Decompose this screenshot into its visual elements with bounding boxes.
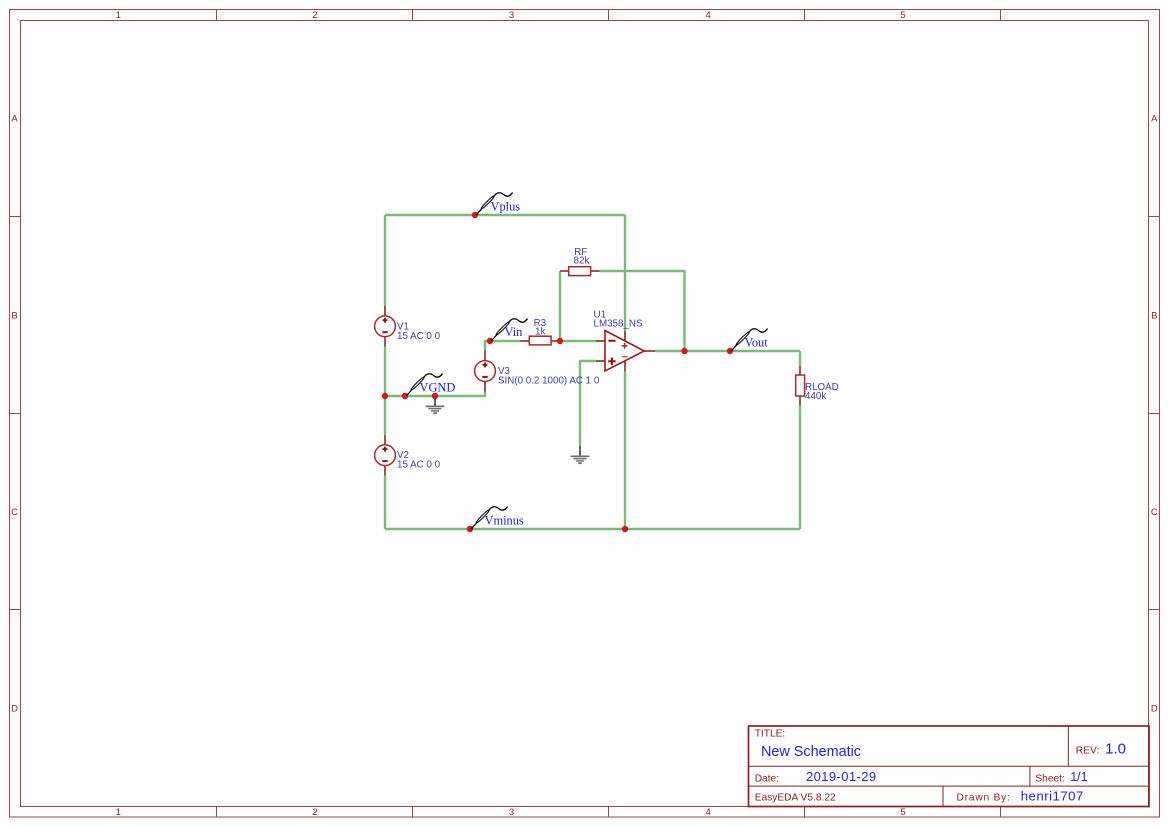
svg-text:15 AC 0 0: 15 AC 0 0 <box>397 460 441 471</box>
wire V1 top drop <box>384 215 386 306</box>
svg-text:VGND: VGND <box>420 381 456 395</box>
svg-text:1: 1 <box>116 10 121 21</box>
svg-text:Vout: Vout <box>745 336 769 350</box>
net flag Vminus <box>471 507 524 529</box>
svg-text:4: 4 <box>705 10 710 21</box>
svg-text:B: B <box>11 310 17 321</box>
junction Vplus <box>472 212 478 218</box>
junction Vminus <box>467 526 473 532</box>
net flag Vin <box>491 319 527 341</box>
title block <box>749 726 1150 807</box>
svg-text:2019-01-29: 2019-01-29 <box>806 769 877 784</box>
V2 voltage source <box>375 435 396 476</box>
wire V2 bottom <box>384 476 386 530</box>
junction Vout <box>727 348 733 354</box>
junction VGND flag <box>402 393 408 399</box>
junction op-amp V- rail <box>622 526 628 532</box>
label RF <box>574 247 590 266</box>
wire RLOAD top <box>799 351 801 366</box>
wire Vplus rail <box>385 214 625 216</box>
V3 voltage source <box>475 351 496 392</box>
svg-text:B: B <box>1151 310 1157 321</box>
svg-text:82k: 82k <box>574 255 590 266</box>
wire op-amp V+ riser <box>624 215 626 331</box>
wire op-amp +input <box>580 361 596 446</box>
svg-text:TITLE:: TITLE: <box>755 729 786 740</box>
title block text <box>755 729 1126 804</box>
svg-text:Drawn By:: Drawn By: <box>957 792 1011 803</box>
svg-text:Date:: Date: <box>755 773 779 784</box>
wire R3 out to op-amp <box>560 340 596 342</box>
svg-text:D: D <box>11 704 18 715</box>
junction ground attach <box>432 393 438 399</box>
svg-text:REV:: REV: <box>1076 745 1099 756</box>
wire V1 bottom <box>384 347 386 397</box>
svg-text:1/1: 1/1 <box>1070 770 1087 784</box>
svg-text:1k: 1k <box>535 327 545 338</box>
wire V2 top <box>384 396 386 435</box>
ground (op-amp +input) <box>571 446 590 464</box>
net flag Vout <box>731 329 768 351</box>
label V3 <box>498 366 600 387</box>
label U1 <box>594 310 643 330</box>
svg-text:440k: 440k <box>805 391 826 402</box>
wire op-amp V- drop <box>624 372 626 530</box>
svg-text:Vplus: Vplus <box>491 200 521 214</box>
junction R3/RF node <box>557 338 563 344</box>
svg-text:Sheet:: Sheet: <box>1035 773 1064 784</box>
svg-text:C: C <box>11 507 18 518</box>
svg-text:2: 2 <box>312 10 317 21</box>
svg-text:A: A <box>1151 114 1158 125</box>
svg-text:1.0: 1.0 <box>1105 740 1126 757</box>
svg-text:Vin: Vin <box>505 325 523 339</box>
resistor R3 <box>520 336 560 345</box>
svg-text:A: A <box>11 114 18 125</box>
svg-text:C: C <box>1151 507 1158 518</box>
net flag Vplus <box>476 193 520 215</box>
svg-text:5: 5 <box>900 10 905 21</box>
wire feedback riser <box>559 271 561 341</box>
resistor RLOAD <box>796 366 805 406</box>
wire VGND rail <box>385 392 485 397</box>
wire RF right <box>600 271 685 351</box>
svg-text:4: 4 <box>705 807 710 818</box>
svg-text:Vminus: Vminus <box>485 514 524 528</box>
op-amp U1 <box>596 331 655 372</box>
svg-text:New Schematic: New Schematic <box>761 744 861 760</box>
svg-text:2: 2 <box>312 807 317 818</box>
label V2 <box>397 450 441 471</box>
svg-text:EasyEDA V5.8.22: EasyEDA V5.8.22 <box>755 792 836 803</box>
label R3 <box>534 318 547 338</box>
svg-text:henri1707: henri1707 <box>1021 788 1084 803</box>
svg-text:3: 3 <box>509 807 514 818</box>
svg-text:5: 5 <box>900 807 905 818</box>
label RLOAD <box>805 382 839 402</box>
junction output/feedback <box>681 348 687 354</box>
ground (VGND rail) <box>426 396 445 414</box>
svg-text:SIN(0 0.2 1000) AC 1 0: SIN(0 0.2 1000) AC 1 0 <box>498 376 600 387</box>
svg-text:1: 1 <box>116 807 121 818</box>
svg-text:15 AC 0 0: 15 AC 0 0 <box>397 331 441 342</box>
label V1 <box>397 321 441 342</box>
svg-text:D: D <box>1151 704 1158 715</box>
wire V3 top <box>485 341 520 351</box>
junction V1/VGND corner <box>382 393 388 399</box>
net flag VGND <box>406 374 455 396</box>
svg-text:3: 3 <box>509 10 514 21</box>
svg-text:LM358_NS: LM358_NS <box>594 319 643 330</box>
resistor RF <box>560 267 600 276</box>
V1 voltage source <box>375 306 396 347</box>
wire RLOAD bottom <box>799 406 801 530</box>
wire output <box>655 350 800 352</box>
wires <box>385 215 800 529</box>
wire Vminus rail <box>385 528 800 530</box>
junction Vin <box>487 338 493 344</box>
